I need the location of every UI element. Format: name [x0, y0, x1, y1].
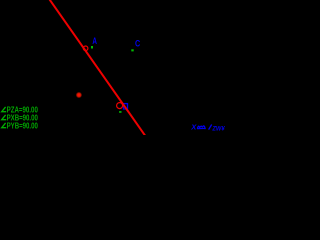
svg-text:PYB=90.00: PYB=90.00: [7, 121, 39, 130]
blue signature bottom right: [190, 123, 225, 133]
point B (green dot): [119, 111, 121, 113]
angle readout line 2: ∠PXB=90.00: [2, 113, 39, 122]
svg-text:C: C: [135, 38, 141, 48]
point C (green dot): [131, 49, 133, 51]
blue square marker at point B on line: [124, 104, 128, 109]
blurred red point X: [0, 0, 1, 1]
line AB (red): [49, 0, 145, 136]
angle readout line 3: ∠PYB=90.00: [2, 121, 39, 130]
svg-text:A: A: [92, 36, 97, 46]
point A (green dot): [91, 46, 93, 49]
angle readout line 1: ∠PZA=90.00: [2, 105, 39, 114]
red circle marker at point Z on line: [83, 46, 88, 51]
svg-text:X: X: [190, 123, 197, 132]
svg-text:ZW¥: ZW¥: [212, 126, 225, 133]
red circle marker near point B (under square): [117, 103, 123, 109]
